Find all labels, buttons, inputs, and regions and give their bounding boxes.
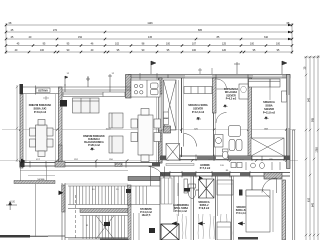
stairwell label: [140, 208, 152, 217]
long counter hallway: [166, 164, 194, 166]
stair number marks: [104, 222, 110, 226]
left outer wall: [20, 94, 23, 168]
svg-text:P=10,1 m2: P=10,1 m2: [175, 210, 187, 213]
tall flag kitchen: [151, 61, 156, 74]
terrace bottom band: [0, 235, 30, 238]
wardrobe bedroom1: [184, 87, 212, 94]
svg-text:18x17,5: 18x17,5: [142, 214, 151, 217]
entry lobby verticals: [134, 213, 140, 240]
svg-text:102: 102: [115, 43, 120, 46]
small bath lower: wc + shower: [184, 179, 196, 199]
dining table left room: [30, 120, 54, 157]
dashed overhang line: [75, 195, 77, 240]
section arrow at left wall: [21, 159, 26, 164]
shower fixtures: [229, 140, 242, 151]
top window band left section: [20, 84, 131, 95]
wardrobe dark band lower right: [264, 173, 282, 180]
OSTAVA label box on band: [36, 88, 50, 93]
ticks line3: [5, 38, 7, 40]
bed X bedroom2: [251, 138, 284, 156]
svg-text:100: 100: [250, 43, 255, 46]
stair mid landing band: [80, 209, 128, 213]
svg-text:100: 100: [40, 49, 45, 52]
shower X lower: [199, 179, 215, 198]
marks above stairs: [184, 188, 190, 192]
down arrows lower rooms: [172, 222, 245, 226]
bedroom1 left wall: [181, 78, 183, 157]
svg-text:P=31,6 m2: P=31,6 m2: [34, 111, 47, 114]
stair upper flight treads: [68, 186, 160, 205]
wardrobe bedroom2: [249, 79, 281, 100]
right lower outer wall: [282, 130, 295, 240]
bath right wall: [248, 78, 252, 159]
dimension numbers: [9, 22, 290, 52]
ticks line2: [5, 31, 7, 33]
stairs right wall: [128, 205, 131, 240]
svg-text:P=6,2 m2: P=6,2 m2: [226, 98, 237, 101]
svg-text:P=12,4 m2: P=12,4 m2: [192, 111, 205, 114]
top dimension block: [6, 23, 292, 54]
sideboard long: [63, 92, 125, 97]
strip right wall: [178, 80, 180, 156]
svg-text:805: 805: [198, 29, 203, 32]
bottom dark dashes right: [238, 237, 258, 240]
lower room inner walls: [160, 176, 252, 240]
stair direction diagonals: [96, 216, 114, 240]
dark blob: [164, 126, 171, 133]
tread numbers: [92, 189, 119, 191]
stair arrow left: [59, 191, 64, 196]
svg-text:415: 415: [148, 36, 153, 39]
bath door arc (old): [216, 113, 227, 124]
flag top right: [282, 61, 287, 74]
svg-text:1010: 1010: [106, 128, 112, 130]
svg-text:100: 100: [192, 49, 197, 52]
svg-text:125: 125: [222, 43, 227, 46]
small shelves: [164, 112, 169, 118]
door arc lower right: [262, 178, 277, 193]
level marker bottom left: [6, 202, 17, 210]
svg-text:905: 905: [312, 117, 315, 122]
upper bedrooms bottom wall y156-159.5: [160, 156, 290, 160]
tall closet with X: [164, 80, 177, 130]
central vertical wall x158-162: [159, 78, 163, 163]
right dimension lines: [304, 55, 320, 240]
bedroom1 right / bath left wall: [213, 78, 217, 113]
svg-text:P=28,4 m2: P=28,4 m2: [88, 144, 100, 147]
sofa top: [73, 98, 100, 113]
svg-text:100: 100: [276, 43, 281, 46]
ticks line5: [5, 51, 7, 53]
svg-text:540: 540: [308, 97, 311, 102]
svg-text:OSTAVA: OSTAVA: [38, 90, 48, 93]
hallway bottom wall lower unit y172.5-176: [160, 173, 290, 177]
window in right wall: [287, 95, 291, 128]
labels lower rooms: [173, 201, 248, 215]
vent shaft with X: [166, 144, 180, 161]
tub: [229, 126, 241, 137]
svg-text:640: 640: [312, 202, 315, 207]
small wc lower: [260, 163, 265, 169]
basin counter: [239, 84, 248, 99]
right outer wall: [287, 75, 291, 169]
washbasin square with circle: [215, 135, 224, 148]
closet lines lower left: [161, 178, 172, 204]
svg-text:310: 310: [264, 36, 269, 39]
svg-text:P=9,8 m2: P=9,8 m2: [199, 207, 210, 210]
level symbol bedroom1: [196, 118, 201, 121]
washer boxes: [231, 163, 236, 168]
lines below living wall: [20, 166, 22, 181]
inner left line: [25, 94, 27, 162]
level cross mark: [43, 96, 49, 100]
terrace edge vertical: [35, 184, 37, 237]
svg-text:100: 100: [166, 43, 171, 46]
flag top centre: [234, 62, 240, 74]
ticks above top wall: [198, 68, 212, 74]
elevation flags living: [65, 74, 112, 87]
bed lower middle: [217, 180, 233, 195]
svg-text:+0,00: +0,00: [9, 202, 16, 204]
svg-text:152: 152: [78, 36, 83, 39]
pergola band: [14, 181, 55, 184]
left stair wall: [62, 183, 65, 240]
dining table main: [131, 109, 161, 162]
lower flight: [65, 216, 128, 240]
mid division wall between units: [59, 87, 63, 166]
svg-text:610: 610: [308, 197, 311, 202]
fireplace dark box: [60, 100, 67, 107]
WC oval: [222, 149, 228, 159]
svg-text:P=11,8 m2: P=11,8 m2: [263, 112, 276, 115]
living bottom wall y162.5-166 x20-160: [20, 162, 161, 168]
bed room2 bottom cut: [217, 222, 231, 240]
stairwell top wall: [128, 177, 160, 181]
living label: [83, 135, 105, 147]
door arc bedroom1: [184, 134, 197, 147]
svg-text:107: 107: [192, 43, 197, 46]
svg-text:120: 120: [222, 49, 227, 52]
dark X bottom left of lower rooms: [161, 224, 179, 240]
kitchen counter: [131, 80, 160, 97]
entry door arc at stair landing: [149, 167, 166, 187]
svg-text:272: 272: [53, 29, 58, 32]
internal dimension chain lines: [0, 130, 298, 161]
ticks line4: [5, 44, 7, 46]
two loveseats: [109, 113, 123, 153]
left outer wall corner pier: [20, 84, 24, 94]
curtains vertical wavy lines: [177, 214, 232, 239]
left dimension line: [16, 85, 18, 162]
bed lower right: [246, 190, 270, 232]
stair divider wall: [128, 185, 132, 205]
top wall right section y74.5-78: [128, 73, 290, 80]
svg-text:1780: 1780: [316, 147, 319, 153]
level mark: [223, 105, 228, 107]
svg-text:P=7,2 m2: P=7,2 m2: [200, 167, 211, 170]
ticks line1: [5, 24, 7, 26]
svg-text:1146: 1146: [147, 22, 153, 25]
kitchen corner hatched wall: [126, 75, 132, 99]
